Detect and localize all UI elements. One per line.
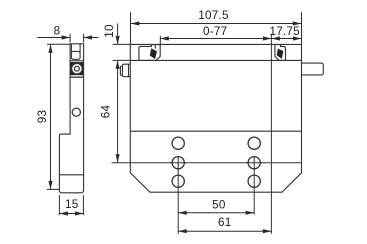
dimension texts <box>36 9 300 229</box>
svg-text:107.5: 107.5 <box>198 9 229 22</box>
arrow 15 left <box>59 211 68 215</box>
ext line from left clamp right edge <box>159 36 161 44</box>
svg-text:61: 61 <box>218 216 232 229</box>
ext 93 bottom <box>47 188 59 190</box>
dim 50 line <box>178 212 254 214</box>
dim line 107.5 <box>131 23 301 25</box>
left clamp dark wedge <box>150 48 157 59</box>
arrow 50 left <box>178 211 187 215</box>
arrow 17.75 left <box>271 36 280 40</box>
side view clamp dark block <box>71 62 84 75</box>
side view clamp nut <box>71 51 80 59</box>
body middle line <box>130 130 301 132</box>
arrow 15 right <box>75 211 84 215</box>
dim 64 line <box>117 60 119 162</box>
left clamp hook inner line <box>154 45 156 49</box>
crosshair of mid-right hole <box>246 162 262 164</box>
arrow 64 up (rail bottom) <box>116 60 120 69</box>
arrow 61 left <box>178 229 187 233</box>
side view ext for 8 right <box>83 34 85 43</box>
hole mid-right <box>248 157 260 169</box>
rail bottom ext to left <box>113 59 131 61</box>
hole axis line (extends left for dim 64) <box>112 162 302 164</box>
svg-text:17.75: 17.75 <box>269 25 300 38</box>
hole top-right <box>248 137 260 149</box>
side view screw head inner circle <box>75 66 80 71</box>
dim line 0-77 <box>160 38 271 40</box>
arrow 93 up <box>48 44 52 53</box>
side view dim 8 right segment <box>84 37 99 39</box>
svg-text:0-77: 0-77 <box>203 25 227 38</box>
side view clamp lower line <box>70 76 84 78</box>
left clamp screw nut (protrudes left of body) <box>123 64 131 77</box>
arrow 107.5 right <box>293 21 302 25</box>
svg-text:50: 50 <box>212 199 226 212</box>
ext 15 left <box>58 195 60 215</box>
arrow 10 down (to rail top) <box>116 36 120 45</box>
ext line right of body top <box>301 12 303 44</box>
extension from right holes down <box>253 157 255 215</box>
extension from left holes down <box>177 157 179 234</box>
hole bottom-left <box>172 175 184 187</box>
crosshair of mid-left hole <box>170 162 186 164</box>
arrow 8 left (outside, points right) <box>62 35 71 39</box>
arrow 93 down <box>48 181 52 190</box>
hole bottom-right <box>248 175 260 187</box>
side view clamp slot right line <box>79 44 81 52</box>
dim line 17.75 <box>271 38 301 40</box>
right side tab <box>301 63 323 75</box>
ext 15 right <box>82 195 84 215</box>
side view clamp upper line <box>70 60 84 62</box>
side view mounting hole <box>72 108 80 116</box>
right clamp dark wedge <box>277 49 284 59</box>
dim 93 line <box>50 44 52 189</box>
dim 61 line <box>178 230 271 232</box>
arrow 107.5 left <box>131 21 140 25</box>
right rail clamp <box>275 45 286 61</box>
ext line left of body top <box>130 12 132 44</box>
arrow 0-77 right <box>263 36 272 40</box>
arrow 0-77 left <box>160 36 169 40</box>
arrow 61 right <box>263 229 272 233</box>
svg-text:93: 93 <box>36 110 49 124</box>
arrow 8 right (outside, points left) <box>84 35 93 39</box>
side view ext for 8 left <box>69 34 71 43</box>
arrow 50 right <box>246 211 255 215</box>
left clamp screw tip cap <box>120 66 122 75</box>
left nut inner line <box>128 64 130 77</box>
hole mid-left <box>172 157 184 169</box>
side view foot line <box>59 174 83 176</box>
side view dim 8 left segment <box>37 37 70 39</box>
arrow 17.75 right <box>293 36 302 40</box>
dim 10 shaft upper <box>117 24 119 45</box>
feature line x=271.4 (clamp edge, extends to dims) <box>270 34 272 234</box>
side view clamp slot left line <box>70 44 72 52</box>
hole top-left <box>172 137 184 149</box>
side view outline (bracket profile with step and foot) <box>59 44 83 193</box>
left rail clamp <box>139 45 160 61</box>
arrow 64 down <box>116 154 120 163</box>
svg-text:64: 64 <box>99 105 112 119</box>
rail bottom line <box>130 59 301 61</box>
rail top ext to left <box>113 43 131 45</box>
ext 93 top <box>47 43 70 45</box>
svg-text:10: 10 <box>103 24 116 38</box>
arrowheads <box>48 21 301 233</box>
side view screw head outer circle <box>71 63 82 74</box>
main body outline (plate with chamfered bottom corners) <box>130 44 301 192</box>
dim 15 line <box>59 213 83 215</box>
svg-text:15: 15 <box>65 198 79 211</box>
svg-text:8: 8 <box>54 25 61 38</box>
